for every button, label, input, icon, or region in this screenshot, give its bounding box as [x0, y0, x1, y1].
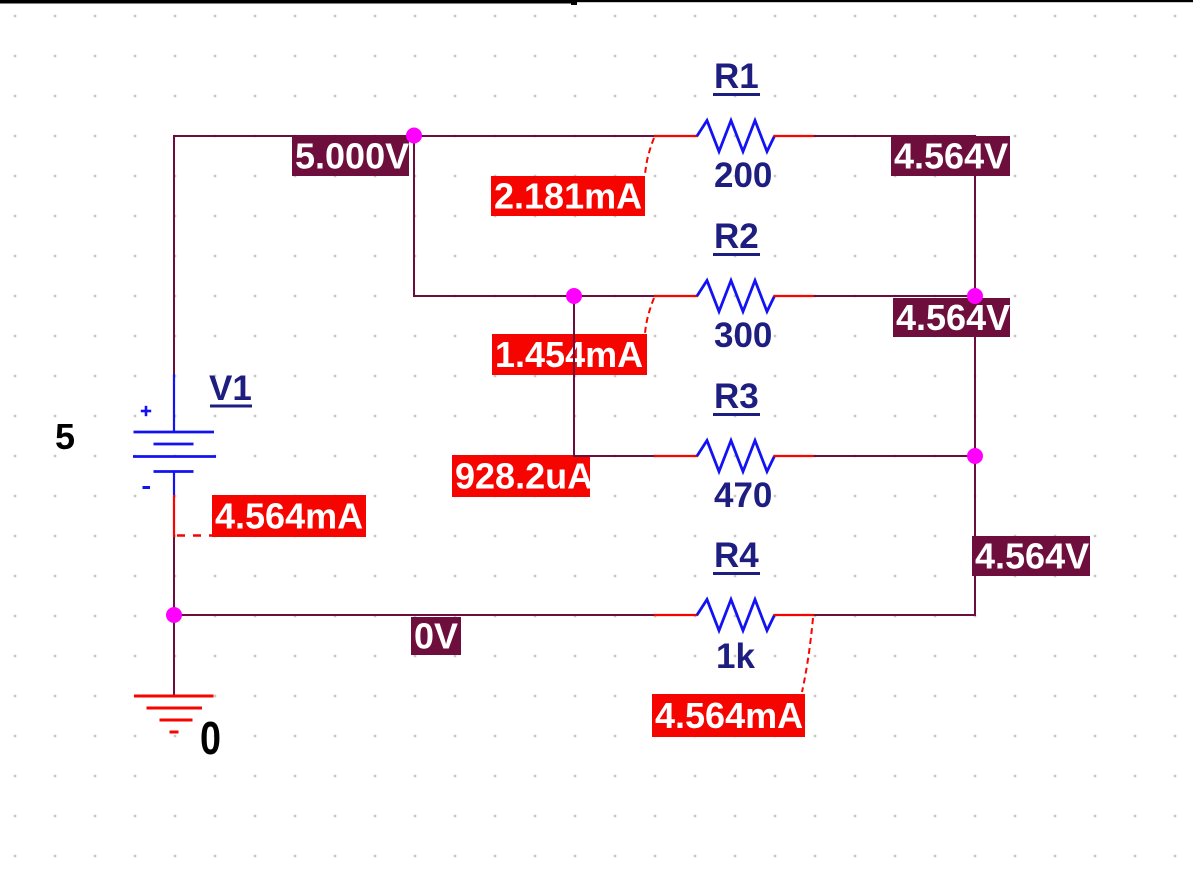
label R4 — [713, 536, 760, 575]
wire R3 row over 928.2uA box — [573, 455, 600, 457]
svg-text:4.564mA: 4.564mA — [655, 695, 803, 736]
current probe label 4.564mA (V1) — [212, 495, 366, 537]
svg-text:R3: R3 — [714, 377, 759, 416]
svg-text:4.564V: 4.564V — [975, 536, 1089, 577]
wire top net from V1+ to R1 left — [173, 135, 655, 137]
leader line to 1.454mA probe — [645, 298, 654, 334]
svg-text:200: 200 — [714, 156, 772, 195]
wire R2 right to right bus — [813, 295, 976, 297]
svg-text:928.2uA: 928.2uA — [455, 456, 593, 497]
ground 0 — [134, 696, 214, 732]
current probe label 928.2uA — [452, 455, 593, 497]
node right bus at R3 — [967, 448, 983, 464]
svg-text:470: 470 — [714, 476, 772, 515]
svg-text:0V: 0V — [414, 616, 458, 657]
wire R4 right to right bus corner — [813, 614, 976, 616]
svg-text:4.564mA: 4.564mA — [215, 496, 363, 537]
svg-text:1k: 1k — [716, 637, 755, 676]
voltage probe label 4.564V (R2 right) — [893, 297, 1010, 338]
wire vertical from node B down to R3 row — [573, 295, 575, 457]
wire bottom net from ground node to R4 left — [173, 614, 655, 616]
voltage probe label 4.564V (R1 right) — [891, 136, 1010, 177]
wire R2 row from vertical to R2 left lead — [413, 295, 655, 297]
svg-text:4.564V: 4.564V — [896, 297, 1010, 338]
current probe label 2.181mA — [491, 176, 645, 217]
svg-text:5: 5 — [55, 416, 75, 457]
svg-text:R1: R1 — [714, 57, 759, 96]
svg-text:4.564V: 4.564V — [894, 136, 1008, 177]
leader line to 4.564mA probe (V1) — [177, 534, 212, 536]
wire ground node down to ground symbol — [173, 614, 175, 696]
node right bus at R2 — [967, 288, 983, 304]
leader line to 4.564mA probe (R4) — [802, 618, 813, 692]
wire V1 bottom pin (red) — [173, 495, 175, 537]
label R3 — [713, 377, 760, 416]
label R1 — [713, 57, 760, 96]
svg-text:V1: V1 — [209, 369, 252, 408]
svg-text:300: 300 — [714, 316, 772, 355]
current probe label 1.454mA — [492, 334, 647, 375]
label V1 — [209, 369, 252, 408]
wire right bus vertical — [974, 135, 976, 616]
svg-text:0: 0 — [200, 712, 221, 764]
svg-text:2.181mA: 2.181mA — [494, 176, 642, 217]
svg-text:R4: R4 — [714, 536, 759, 575]
node A top junction — [406, 128, 422, 144]
wire R1 right to right bus — [813, 135, 976, 137]
voltage source V1 — [133, 374, 216, 495]
wire left vertical from top corner down to V1 pin — [173, 135, 175, 375]
svg-text:1.454mA: 1.454mA — [495, 334, 643, 375]
voltage probe label 0V — [411, 616, 461, 657]
resistor R3 — [654, 441, 814, 472]
resistor R4 — [654, 600, 814, 631]
wire from V1 minus pin down to ground node — [173, 536, 175, 616]
node B mid junction — [566, 288, 582, 304]
wire R3 row from vertical to R3 left lead — [573, 455, 655, 457]
label R2 — [713, 217, 760, 256]
svg-text:5.000V: 5.000V — [295, 136, 409, 177]
node ground junction — [166, 607, 182, 623]
resistor R1 — [654, 121, 814, 152]
current probe label 4.564mA (R4) — [652, 694, 805, 737]
voltage probe label 4.564V (right bus) — [972, 536, 1090, 577]
wire R3 right to right bus — [813, 455, 976, 457]
resistor R2 — [654, 281, 814, 312]
voltage probe label 5.000V — [292, 136, 409, 177]
svg-text:R2: R2 — [714, 217, 759, 256]
leader line to 2.181mA probe — [645, 138, 654, 176]
wire vertical from node A down to R2 row — [413, 135, 415, 297]
wire vertical over 1.454mA box — [573, 334, 575, 375]
